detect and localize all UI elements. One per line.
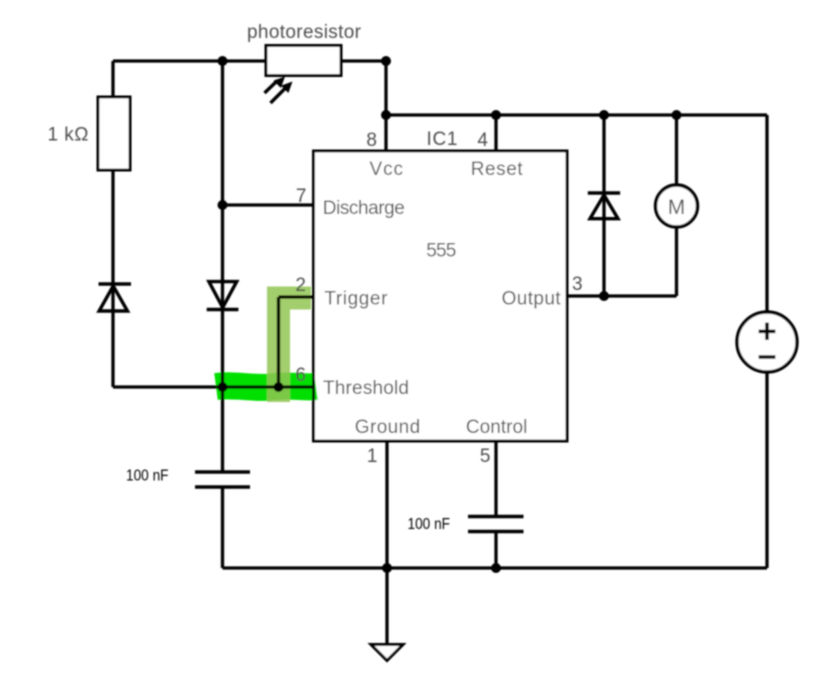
svg-text:100 nF: 100 nF bbox=[408, 516, 451, 533]
svg-text:3: 3 bbox=[572, 274, 583, 295]
svg-text:Discharge: Discharge bbox=[323, 198, 405, 219]
svg-text:Trigger: Trigger bbox=[324, 289, 388, 310]
svg-text:M: M bbox=[668, 196, 686, 219]
svg-text:2: 2 bbox=[295, 275, 306, 296]
svg-text:5: 5 bbox=[480, 446, 491, 467]
svg-text:Ground: Ground bbox=[355, 417, 421, 438]
svg-text:8: 8 bbox=[366, 130, 377, 151]
svg-text:555: 555 bbox=[426, 241, 456, 262]
svg-text:photoresistor: photoresistor bbox=[247, 22, 362, 43]
svg-text:Output: Output bbox=[502, 289, 562, 310]
svg-text:1: 1 bbox=[367, 446, 378, 467]
svg-text:100 nF: 100 nF bbox=[126, 468, 169, 485]
svg-text:Reset: Reset bbox=[471, 159, 524, 180]
svg-text:Control: Control bbox=[466, 417, 527, 438]
svg-text:Vcc: Vcc bbox=[370, 159, 404, 180]
svg-text:6: 6 bbox=[295, 365, 306, 386]
svg-text:Threshold: Threshold bbox=[323, 378, 409, 399]
svg-text:IC1: IC1 bbox=[427, 129, 458, 150]
svg-text:1 kΩ: 1 kΩ bbox=[48, 125, 89, 146]
svg-text:4: 4 bbox=[477, 130, 488, 151]
svg-text:7: 7 bbox=[296, 186, 307, 207]
